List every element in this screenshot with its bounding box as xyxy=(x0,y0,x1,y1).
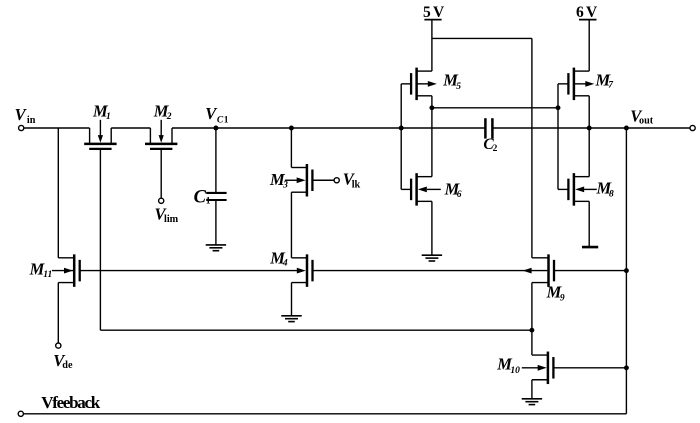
svg-text:1: 1 xyxy=(206,197,211,207)
svg-text:1: 1 xyxy=(106,112,111,122)
svg-text:2: 2 xyxy=(493,144,498,154)
svg-text:lim: lim xyxy=(164,214,179,225)
svg-text:6: 6 xyxy=(457,190,462,200)
svg-text:out: out xyxy=(639,116,654,127)
svg-text:7: 7 xyxy=(608,80,614,90)
svg-text:lk: lk xyxy=(352,179,361,190)
svg-text:V: V xyxy=(15,105,28,124)
svg-text:2: 2 xyxy=(166,112,172,122)
svg-text:6: 6 xyxy=(576,4,584,21)
svg-text:5: 5 xyxy=(456,82,461,92)
svg-text:de: de xyxy=(62,360,73,371)
svg-text:V: V xyxy=(433,4,445,21)
svg-text:10: 10 xyxy=(510,366,520,376)
svg-text:1: 1 xyxy=(224,115,229,125)
svg-text:3: 3 xyxy=(282,180,288,190)
svg-text:9: 9 xyxy=(560,293,565,303)
svg-text:4: 4 xyxy=(282,259,288,269)
svg-text:Vfeeback: Vfeeback xyxy=(41,393,101,412)
svg-text:8: 8 xyxy=(609,190,614,200)
svg-text:C: C xyxy=(194,187,207,207)
svg-text:in: in xyxy=(27,115,36,126)
svg-text:5: 5 xyxy=(423,4,431,21)
svg-text:11: 11 xyxy=(43,270,52,280)
svg-text:V: V xyxy=(586,4,598,21)
